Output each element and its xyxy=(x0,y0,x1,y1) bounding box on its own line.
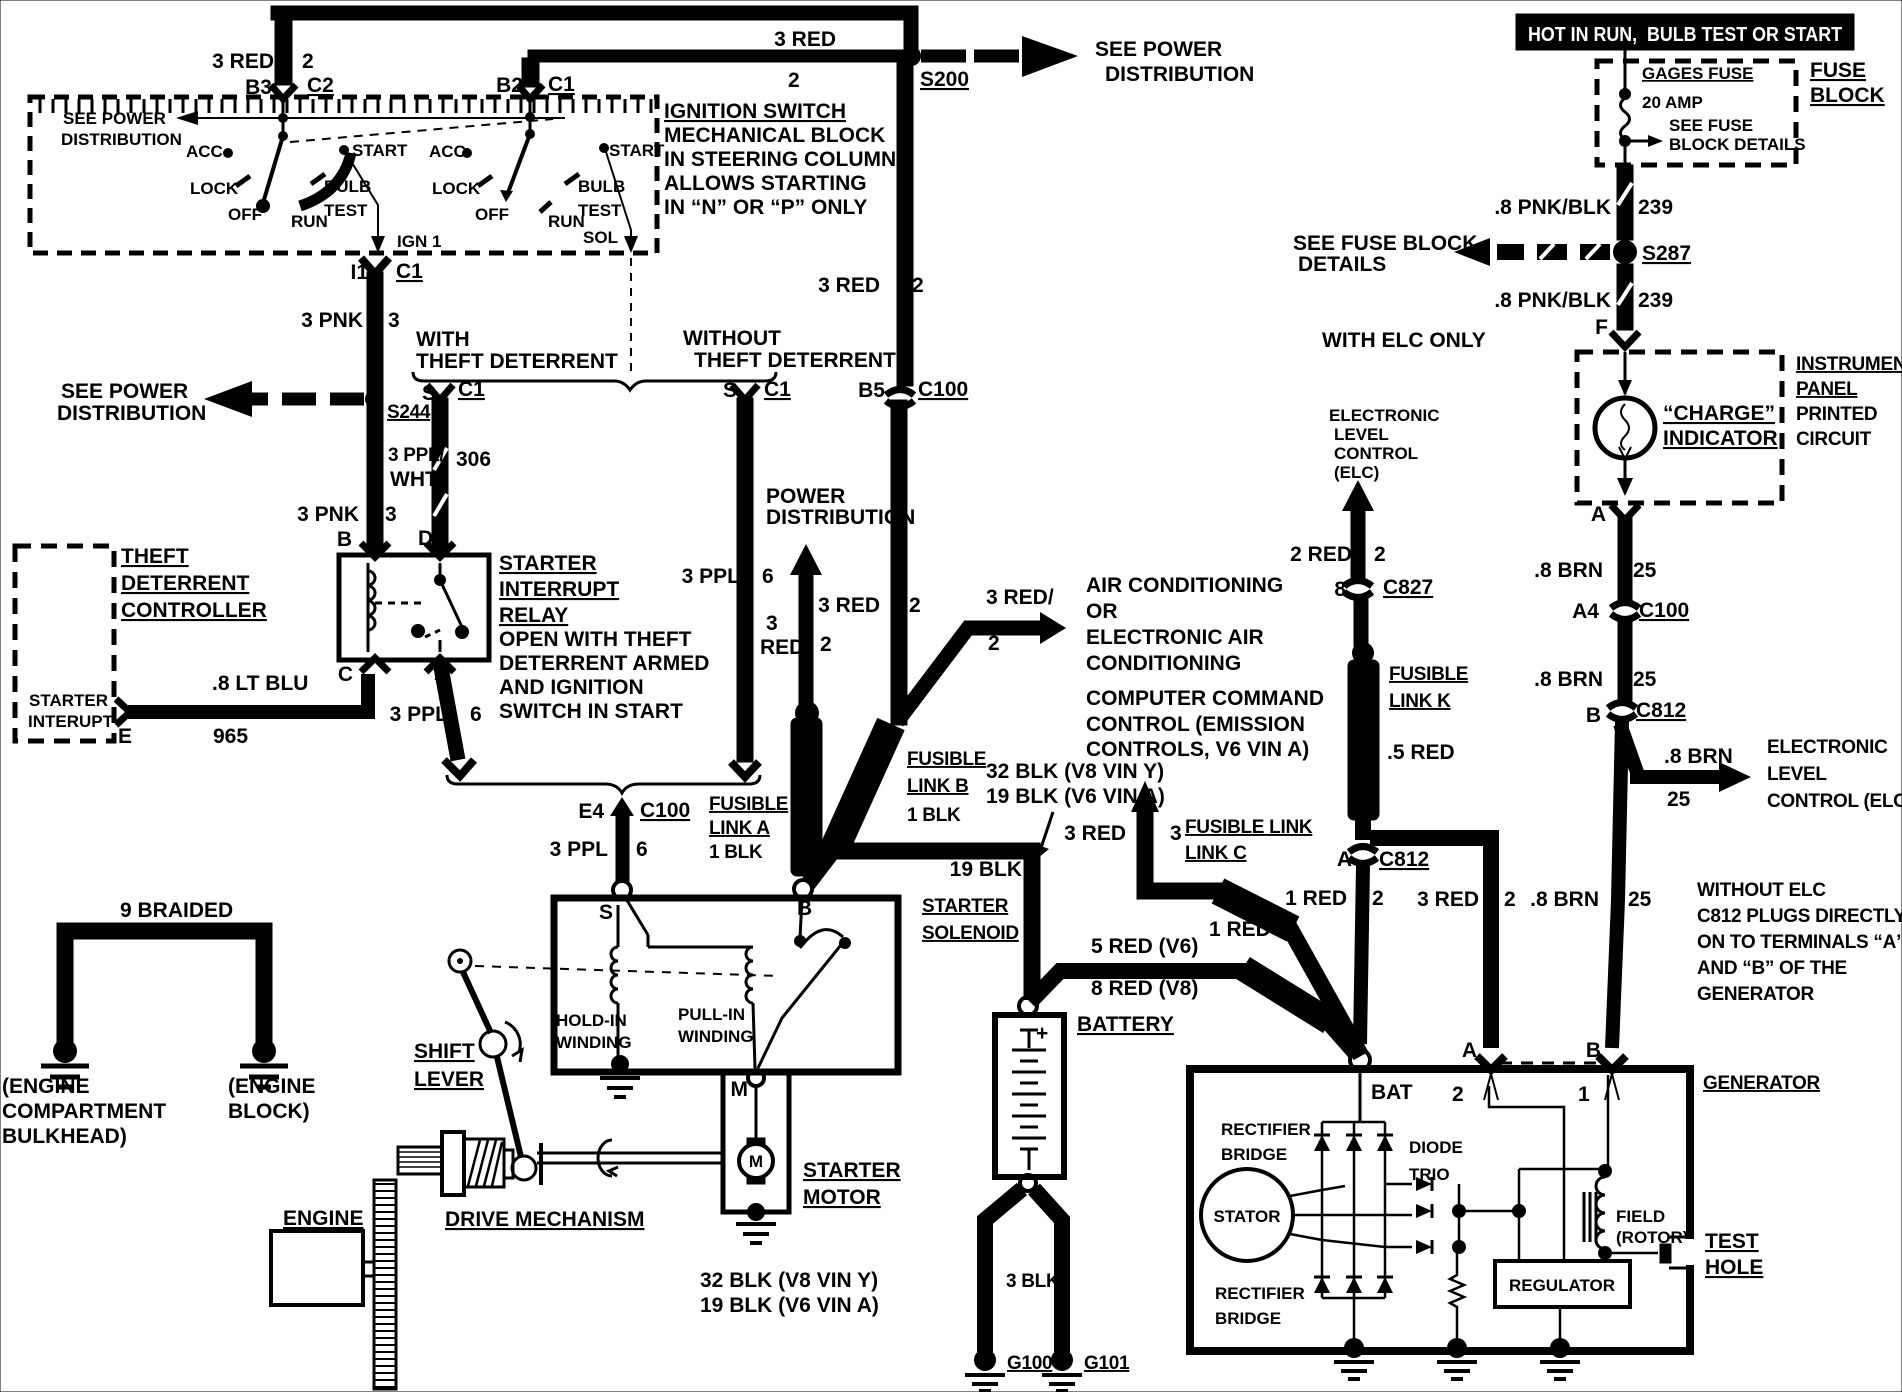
svg-text:LINK K: LINK K xyxy=(1389,691,1451,712)
svg-text:32 BLK (V8 VIN Y): 32 BLK (V8 VIN Y) xyxy=(986,760,1164,783)
svg-text:B: B xyxy=(797,897,812,920)
svg-text:WITH ELC ONLY: WITH ELC ONLY xyxy=(1322,329,1486,352)
svg-text:STARTER: STARTER xyxy=(922,896,1009,917)
svg-text:C100: C100 xyxy=(918,378,968,401)
svg-text:B: B xyxy=(1586,704,1601,727)
svg-text:C: C xyxy=(338,663,353,686)
svg-text:2: 2 xyxy=(1372,887,1384,910)
svg-text:FUSIBLE LINK: FUSIBLE LINK xyxy=(1185,817,1313,838)
svg-text:CIRCUIT: CIRCUIT xyxy=(1796,429,1872,450)
svg-text:C827: C827 xyxy=(1383,576,1433,599)
svg-text:THEFT DETERRENT: THEFT DETERRENT xyxy=(416,350,618,373)
svg-text:3: 3 xyxy=(1170,822,1182,845)
svg-text:239: 239 xyxy=(1638,196,1673,219)
svg-text:.8 BRN: .8 BRN xyxy=(1534,559,1603,582)
svg-text:CONTROL (ELC): CONTROL (ELC) xyxy=(1767,791,1902,812)
svg-text:RECTIFIER: RECTIFIER xyxy=(1221,1120,1311,1139)
svg-text:ALLOWS STARTING: ALLOWS STARTING xyxy=(664,172,867,195)
svg-text:“CHARGE”: “CHARGE” xyxy=(1663,402,1775,425)
svg-text:2: 2 xyxy=(820,633,832,656)
svg-text:CONTROLLER: CONTROLLER xyxy=(121,599,267,622)
svg-text:OPEN WITH THEFT: OPEN WITH THEFT xyxy=(499,628,692,651)
svg-text:2: 2 xyxy=(302,50,314,73)
svg-text:PRINTED: PRINTED xyxy=(1796,404,1877,425)
svg-text:LOCK: LOCK xyxy=(432,179,481,198)
svg-text:2: 2 xyxy=(1452,1083,1464,1106)
svg-text:START: START xyxy=(609,141,665,160)
svg-text:.5 RED: .5 RED xyxy=(1387,741,1455,764)
svg-text:COMPARTMENT: COMPARTMENT xyxy=(2,1100,166,1123)
svg-text:M: M xyxy=(749,1152,763,1171)
svg-text:2: 2 xyxy=(1504,888,1516,911)
svg-text:3 RED: 3 RED xyxy=(1417,888,1479,911)
svg-text:DISTRIBUTION: DISTRIBUTION xyxy=(61,130,182,149)
svg-text:DRIVE MECHANISM: DRIVE MECHANISM xyxy=(445,1208,645,1231)
svg-text:25: 25 xyxy=(1628,888,1652,911)
svg-text:SEE FUSE BLOCK: SEE FUSE BLOCK xyxy=(1293,232,1477,255)
svg-text:32 BLK (V8 VIN Y): 32 BLK (V8 VIN Y) xyxy=(700,1269,878,1292)
svg-text:AIR CONDITIONING: AIR CONDITIONING xyxy=(1086,574,1283,597)
svg-text:GAGES FUSE: GAGES FUSE xyxy=(1642,64,1753,83)
svg-text:LINK C: LINK C xyxy=(1185,843,1247,864)
svg-text:S: S xyxy=(599,901,613,924)
svg-text:20 AMP: 20 AMP xyxy=(1642,93,1703,112)
svg-text:1 RED: 1 RED xyxy=(1285,887,1347,910)
svg-text:PANEL: PANEL xyxy=(1796,379,1858,400)
svg-text:2: 2 xyxy=(909,594,921,617)
svg-text:BULB: BULB xyxy=(578,177,625,196)
svg-text:3 RED: 3 RED xyxy=(818,274,880,297)
svg-text:DETAILS: DETAILS xyxy=(1298,253,1386,276)
svg-text:3 PPL/: 3 PPL/ xyxy=(388,445,445,466)
svg-text:DISTRIBUTION: DISTRIBUTION xyxy=(766,506,915,529)
svg-text:WHT: WHT xyxy=(390,468,438,491)
svg-text:AND IGNITION: AND IGNITION xyxy=(499,676,644,699)
svg-text:START: START xyxy=(352,141,408,160)
svg-text:G101: G101 xyxy=(1084,1353,1130,1374)
svg-text:ENGINE: ENGINE xyxy=(283,1207,364,1230)
svg-text:B: B xyxy=(337,528,352,551)
svg-text:DETERRENT: DETERRENT xyxy=(121,572,250,595)
svg-text:LEVEL: LEVEL xyxy=(1334,425,1389,444)
svg-text:LOCK: LOCK xyxy=(190,179,239,198)
svg-text:HOLD-IN: HOLD-IN xyxy=(556,1011,627,1030)
svg-text:OFF: OFF xyxy=(475,205,509,224)
svg-text:SOLENOID: SOLENOID xyxy=(922,923,1019,944)
svg-text:IN STEERING COLUMN: IN STEERING COLUMN xyxy=(664,148,896,171)
svg-text:CONTROL: CONTROL xyxy=(1334,444,1418,463)
svg-text:2: 2 xyxy=(912,274,924,297)
svg-text:3: 3 xyxy=(388,309,400,332)
svg-text:AND “B” OF THE: AND “B” OF THE xyxy=(1697,958,1847,979)
svg-text:9 BRAIDED: 9 BRAIDED xyxy=(120,899,233,922)
svg-text:BLOCK): BLOCK) xyxy=(228,1100,310,1123)
svg-text:3 PPL: 3 PPL xyxy=(682,565,741,588)
svg-text:HOLE: HOLE xyxy=(1705,1256,1763,1279)
svg-text:.8 BRN: .8 BRN xyxy=(1664,745,1733,768)
svg-text:DETERRENT ARMED: DETERRENT ARMED xyxy=(499,652,709,675)
svg-text:FUSE: FUSE xyxy=(1810,59,1866,82)
svg-text:INTERRUPT: INTERRUPT xyxy=(499,578,619,601)
svg-text:3: 3 xyxy=(766,612,778,635)
svg-text:STARTER: STARTER xyxy=(499,552,597,575)
svg-text:CONDITIONING: CONDITIONING xyxy=(1086,652,1241,675)
svg-text:C1: C1 xyxy=(458,378,485,401)
svg-text:3 RED: 3 RED xyxy=(818,594,880,617)
svg-text:C1: C1 xyxy=(548,73,575,96)
svg-text:IN “N” OR “P” ONLY: IN “N” OR “P” ONLY xyxy=(664,196,867,219)
svg-text:(ENGINE: (ENGINE xyxy=(2,1075,90,1098)
svg-text:POWER: POWER xyxy=(766,485,845,508)
svg-text:ACC: ACC xyxy=(186,142,223,161)
svg-text:.8 PNK/BLK: .8 PNK/BLK xyxy=(1494,196,1611,219)
svg-text:3 BLK: 3 BLK xyxy=(1006,1271,1060,1292)
svg-text:F: F xyxy=(1595,316,1608,339)
svg-text:3 PNK: 3 PNK xyxy=(297,503,359,526)
svg-text:DISTRIBUTION: DISTRIBUTION xyxy=(1105,63,1254,86)
svg-text:3 RED: 3 RED xyxy=(212,50,274,73)
svg-text:WITHOUT: WITHOUT xyxy=(683,327,781,350)
svg-text:S287: S287 xyxy=(1642,242,1691,265)
svg-text:1 BLK: 1 BLK xyxy=(709,842,763,863)
svg-text:FUSIBLE: FUSIBLE xyxy=(907,749,986,770)
svg-text:LINK B: LINK B xyxy=(907,776,969,797)
svg-text:WITH: WITH xyxy=(416,328,470,351)
svg-text:C2: C2 xyxy=(307,74,334,97)
svg-text:6: 6 xyxy=(762,565,774,588)
svg-text:SHIFT: SHIFT xyxy=(414,1040,475,1063)
svg-text:INTERUPT: INTERUPT xyxy=(28,712,114,731)
svg-text:1: 1 xyxy=(1578,1083,1590,1106)
svg-text:WINDING: WINDING xyxy=(556,1033,632,1052)
svg-text:COMPUTER COMMAND: COMPUTER COMMAND xyxy=(1086,687,1324,710)
svg-text:SOL: SOL xyxy=(583,228,618,247)
svg-text:RELAY: RELAY xyxy=(499,604,568,627)
svg-text:3 PNK: 3 PNK xyxy=(301,309,363,332)
svg-text:C1: C1 xyxy=(764,378,791,401)
svg-text:SEE POWER: SEE POWER xyxy=(61,380,188,403)
svg-text:IGNITION SWITCH: IGNITION SWITCH xyxy=(664,100,846,123)
svg-text:SWITCH IN START: SWITCH IN START xyxy=(499,700,683,723)
svg-text:IGN 1: IGN 1 xyxy=(397,232,441,251)
svg-text:THEFT: THEFT xyxy=(121,545,189,568)
svg-text:BRIDGE: BRIDGE xyxy=(1221,1145,1287,1164)
svg-text:B5: B5 xyxy=(858,379,885,402)
svg-text:3 PPL: 3 PPL xyxy=(550,838,609,861)
svg-text:25: 25 xyxy=(1633,668,1657,691)
svg-text:ACC: ACC xyxy=(429,142,466,161)
svg-text:FUSIBLE: FUSIBLE xyxy=(1389,664,1468,685)
svg-text:(ENGINE: (ENGINE xyxy=(228,1075,316,1098)
svg-text:TEST: TEST xyxy=(578,201,622,220)
svg-text:SEE FUSE: SEE FUSE xyxy=(1669,116,1753,135)
svg-text:CONTROLS, V6 VIN A): CONTROLS, V6 VIN A) xyxy=(1086,738,1309,761)
svg-text:3: 3 xyxy=(385,503,397,526)
svg-text:239: 239 xyxy=(1638,289,1673,312)
svg-text:ELECTRONIC: ELECTRONIC xyxy=(1329,406,1440,425)
svg-text:WITHOUT ELC: WITHOUT ELC xyxy=(1697,880,1826,901)
svg-text:C100: C100 xyxy=(1639,599,1689,622)
svg-text:A4: A4 xyxy=(1572,600,1599,623)
svg-text:S244: S244 xyxy=(387,402,431,423)
svg-text:C812: C812 xyxy=(1636,699,1686,722)
svg-text:SEE POWER: SEE POWER xyxy=(63,109,166,128)
svg-text:2: 2 xyxy=(988,632,1000,655)
svg-text:M: M xyxy=(731,1078,749,1101)
svg-text:STARTER: STARTER xyxy=(803,1159,901,1182)
svg-text:C100: C100 xyxy=(640,799,690,822)
svg-text:BLOCK DETAILS: BLOCK DETAILS xyxy=(1669,135,1806,154)
svg-text:TEST: TEST xyxy=(1705,1230,1759,1253)
svg-text:RECTIFIER: RECTIFIER xyxy=(1215,1284,1305,1303)
svg-text:TEST: TEST xyxy=(324,201,368,220)
svg-text:OFF: OFF xyxy=(228,205,262,224)
svg-text:+: + xyxy=(1036,1022,1048,1045)
svg-text:FUSIBLE: FUSIBLE xyxy=(709,794,788,815)
svg-text:2: 2 xyxy=(788,69,800,92)
svg-text:REGULATOR: REGULATOR xyxy=(1509,1276,1615,1295)
svg-text:INSTRUMENT: INSTRUMENT xyxy=(1796,354,1902,375)
svg-text:(ELC): (ELC) xyxy=(1334,463,1379,482)
svg-text:2: 2 xyxy=(1374,543,1386,566)
svg-text:6: 6 xyxy=(636,838,648,861)
svg-text:INDICATOR: INDICATOR xyxy=(1663,427,1778,450)
svg-text:.8 PNK/BLK: .8 PNK/BLK xyxy=(1494,289,1611,312)
svg-text:LEVEL: LEVEL xyxy=(1767,764,1827,785)
svg-text:8 RED (V8): 8 RED (V8) xyxy=(1091,977,1198,1000)
svg-text:DIODE: DIODE xyxy=(1409,1138,1463,1157)
svg-text:306: 306 xyxy=(456,448,491,471)
svg-text:STARTER: STARTER xyxy=(29,691,108,710)
svg-text:SEE POWER: SEE POWER xyxy=(1095,38,1222,61)
svg-text:RED: RED xyxy=(760,636,804,659)
svg-text:3 RED/: 3 RED/ xyxy=(986,586,1054,609)
svg-text:BAT: BAT xyxy=(1371,1081,1413,1104)
svg-text:19 BLK (V6 VIN A): 19 BLK (V6 VIN A) xyxy=(700,1294,879,1317)
svg-text:E: E xyxy=(118,725,132,748)
svg-text:3 RED: 3 RED xyxy=(1064,822,1126,845)
svg-text:RUN: RUN xyxy=(291,212,328,231)
svg-text:5 RED (V6): 5 RED (V6) xyxy=(1091,935,1198,958)
svg-text:3 PPL: 3 PPL xyxy=(390,703,449,726)
svg-text:1 RED: 1 RED xyxy=(1209,918,1271,941)
svg-text:25: 25 xyxy=(1633,559,1657,582)
svg-text:MOTOR: MOTOR xyxy=(803,1186,881,1209)
svg-text:WINDING: WINDING xyxy=(678,1027,754,1046)
svg-text:19 BLK: 19 BLK xyxy=(950,858,1022,881)
svg-text:.8 BRN: .8 BRN xyxy=(1530,888,1599,911)
svg-text:GENERATOR: GENERATOR xyxy=(1703,1073,1821,1094)
svg-text:OR: OR xyxy=(1086,600,1118,623)
svg-text:STATOR: STATOR xyxy=(1213,1207,1280,1226)
svg-text:GENERATOR: GENERATOR xyxy=(1697,984,1815,1005)
svg-text:DISTRIBUTION: DISTRIBUTION xyxy=(57,402,206,425)
svg-text:BRIDGE: BRIDGE xyxy=(1215,1309,1281,1328)
svg-text:25: 25 xyxy=(1667,788,1691,811)
svg-text:S200: S200 xyxy=(920,68,969,91)
svg-text:FIELD: FIELD xyxy=(1616,1207,1665,1226)
svg-text:.8 LT BLU: .8 LT BLU xyxy=(212,672,308,695)
svg-text:965: 965 xyxy=(213,725,248,748)
svg-text:CONTROL (EMISSION: CONTROL (EMISSION xyxy=(1086,713,1305,736)
svg-text:G100: G100 xyxy=(1007,1353,1052,1374)
svg-text:ON TO TERMINALS “A”: ON TO TERMINALS “A” xyxy=(1697,932,1902,953)
svg-text:C812 PLUGS DIRECTLY: C812 PLUGS DIRECTLY xyxy=(1697,906,1902,927)
svg-text:E4: E4 xyxy=(578,800,604,823)
svg-text:BLOCK: BLOCK xyxy=(1810,84,1885,107)
svg-text:TRIO: TRIO xyxy=(1409,1165,1450,1184)
svg-text:HOT IN RUN, BULB TEST OR STAR: HOT IN RUN, BULB TEST OR START xyxy=(1528,24,1842,46)
svg-text:MECHANICAL BLOCK: MECHANICAL BLOCK xyxy=(664,124,885,147)
svg-text:3 RED: 3 RED xyxy=(774,28,836,51)
svg-text:ELECTRONIC: ELECTRONIC xyxy=(1767,737,1888,758)
svg-text:.8 BRN: .8 BRN xyxy=(1534,668,1603,691)
svg-text:BULKHEAD): BULKHEAD) xyxy=(2,1125,127,1148)
svg-text:BATTERY: BATTERY xyxy=(1077,1013,1174,1036)
svg-text:THEFT DETERRENT: THEFT DETERRENT xyxy=(694,349,896,372)
svg-text:1 BLK: 1 BLK xyxy=(907,805,961,826)
svg-text:A: A xyxy=(1591,503,1606,526)
svg-text:LINK A: LINK A xyxy=(709,818,770,839)
svg-text:6: 6 xyxy=(470,703,482,726)
svg-text:2 RED: 2 RED xyxy=(1290,543,1352,566)
svg-text:LEVER: LEVER xyxy=(414,1068,484,1091)
svg-text:C812: C812 xyxy=(1379,848,1429,871)
svg-text:PULL-IN: PULL-IN xyxy=(678,1005,745,1024)
svg-text:C1: C1 xyxy=(396,260,423,283)
svg-text:ELECTRONIC AIR: ELECTRONIC AIR xyxy=(1086,626,1264,649)
